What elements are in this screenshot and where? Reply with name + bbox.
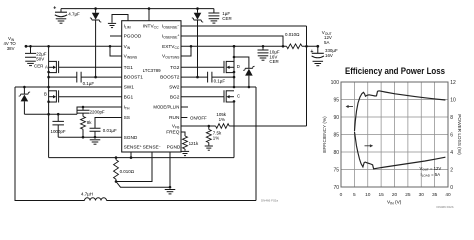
svg-text:2200pF: 2200pF — [90, 110, 105, 115]
resistor 8k (ITH) — [82, 113, 84, 116]
ground (22uF) — [25, 60, 36, 62]
wire switch A/B conductor (VIN to SW1 to bus) — [48, 46, 50, 157]
svg-text:SW1: SW1 — [124, 85, 135, 91]
wire SW1 to inductor — [15, 87, 85, 201]
svg-text:8: 8 — [450, 115, 453, 121]
node C source junction — [233, 100, 236, 103]
svg-text:0.010Ω: 0.010Ω — [120, 169, 135, 174]
svg-text:0: 0 — [450, 185, 453, 191]
wire switch C source to bus — [233, 101, 235, 157]
wire MODE/PLLIN stub — [181, 106, 188, 108]
node bus junctions — [115, 156, 118, 159]
wire VOUTSNS tap — [181, 46, 191, 56]
svg-text:80: 80 — [333, 150, 339, 156]
node RSENSE terminals — [115, 180, 118, 183]
capacitor 22uF 50V CER (input) — [30, 46, 32, 53]
svg-text:CER: CER — [34, 63, 43, 68]
wire IOSENSE- / VFB vertical — [306, 26, 308, 126]
svg-text:85: 85 — [333, 132, 339, 138]
resistor RSENSE 0.010 ohm — [114, 160, 119, 180]
svg-text:LTC3789: LTC3789 — [143, 68, 161, 73]
svg-text:+: + — [310, 49, 313, 55]
capacitor 1000pF (ITH filter) — [57, 114, 59, 121]
wire INTVCC pin — [148, 9, 150, 21]
svg-text:70: 70 — [333, 185, 339, 191]
diode DB1 (BOOST1 charge, schottky) — [95, 9, 97, 13]
svg-text:4.7µF: 4.7µF — [68, 12, 80, 17]
svg-text:40: 40 — [445, 192, 451, 198]
svg-text:1000pF: 1000pF — [51, 129, 66, 134]
wire RUN stub — [181, 117, 187, 119]
svg-text:TG1: TG1 — [124, 65, 134, 71]
svg-text:PGND: PGND — [167, 145, 181, 151]
wire ITH pin — [77, 107, 122, 114]
wire source/sense bus — [49, 157, 234, 159]
svg-text:121k: 121k — [189, 141, 199, 146]
svg-text:SENSE−: SENSE− — [143, 145, 161, 151]
svg-text:+: + — [53, 6, 56, 12]
wire VINSNS to VIN — [110, 46, 122, 56]
svg-text:PGOOD: PGOOD — [124, 34, 142, 40]
capacitor 0.1uF (BOOST2) — [181, 76, 234, 78]
svg-text:2: 2 — [450, 167, 453, 173]
svg-text:BG1: BG1 — [124, 94, 134, 100]
svg-text:FREQ: FREQ — [166, 130, 180, 136]
svg-text:0.010Ω: 0.010Ω — [285, 32, 300, 37]
wire VIN rail — [26, 45, 122, 47]
svg-text:BG2: BG2 — [170, 94, 180, 100]
svg-text:Efficiency and Power Loss: Efficiency and Power Loss — [345, 65, 445, 76]
capacitor 330uF 16V (output, polarized) — [317, 46, 319, 53]
svg-text:12: 12 — [450, 80, 456, 86]
ground (4.7uF) — [56, 18, 67, 20]
wire TG1 to gate A — [59, 66, 122, 68]
node VFB divider junction — [208, 125, 211, 128]
ground (7.5k) — [205, 145, 213, 147]
wire diode DB2 to BOOST2 — [197, 20, 199, 77]
ground (SGND bus) — [90, 139, 101, 141]
op-amp U1 LTC3789 (controller IC body) — [122, 21, 181, 152]
node INTVCC rail junctions — [94, 7, 97, 10]
ground (10uF) — [258, 55, 269, 57]
svg-text:100: 100 — [331, 80, 340, 86]
capacitor 0.1uF (BOOST1) — [49, 76, 122, 78]
diode D-C schottky (across switch D) — [248, 76, 250, 87]
resistor 0.010 ohm (output sense) — [287, 44, 303, 49]
svg-text:POWER LOSS (W): POWER LOSS (W) — [457, 114, 462, 155]
svg-text:SW2: SW2 — [169, 85, 180, 91]
capacitor 1uF CER (INTVCC) — [213, 9, 215, 13]
wire SGND ground bus — [58, 136, 121, 138]
wire PGND pin — [169, 152, 171, 187]
node PGND junction — [169, 186, 172, 189]
ground (PGND) — [165, 189, 176, 191]
wire IOSENSE+ line — [181, 36, 283, 46]
wire SS pin — [95, 118, 122, 129]
svg-text:15: 15 — [378, 192, 384, 198]
svg-text:SENSE+: SENSE+ — [124, 145, 142, 151]
capacitor 10uF 16V CER (output) — [262, 46, 264, 50]
svg-text:DN466 F02b: DN466 F02b — [437, 205, 454, 209]
node A source/cap junctions — [47, 71, 50, 74]
svg-text:RUN: RUN — [169, 115, 180, 121]
wire IOSENSE- line — [181, 25, 307, 27]
wire SENSE- pin — [116, 152, 152, 182]
wire diode DB1 to BOOST1 — [95, 20, 97, 77]
svg-text:95: 95 — [333, 97, 339, 103]
ground (330uF) — [313, 60, 324, 62]
svg-text:VIN (V): VIN (V) — [387, 199, 402, 205]
svg-text:75: 75 — [333, 167, 339, 173]
svg-text:SGND: SGND — [124, 135, 138, 141]
node VIN input terminal — [25, 45, 28, 48]
node VOUT rail junctions — [190, 45, 193, 48]
wire SENSE+ pin — [130, 152, 132, 158]
svg-text:1%: 1% — [219, 117, 225, 122]
svg-text:16V: 16V — [325, 53, 333, 58]
svg-text:TG2: TG2 — [170, 65, 180, 71]
wire PGOOD stub — [110, 35, 122, 37]
svg-text:BOOST1: BOOST1 — [124, 75, 144, 81]
wire TG2 to gate D — [181, 66, 224, 68]
svg-text:0.1µF: 0.1µF — [83, 81, 95, 86]
svg-text:25: 25 — [405, 192, 411, 198]
svg-text:SS: SS — [124, 115, 130, 121]
wire INTVCC top rail — [61, 8, 214, 10]
wire ILIM pin to ground — [112, 15, 128, 23]
wire SW1 rail — [15, 86, 122, 88]
wire switch D/C conductor (VOUT to SW2) — [233, 46, 235, 87]
node D junctions — [233, 45, 236, 48]
diode DB2 (BOOST2 charge, schottky) — [197, 9, 199, 13]
svg-text:0: 0 — [340, 192, 343, 198]
svg-text:DN466 F02a: DN466 F02a — [261, 198, 278, 202]
wire 0.01uF to ground bus — [94, 131, 96, 137]
svg-text:50V: 50V — [36, 56, 44, 61]
node ITH junction — [82, 106, 85, 109]
svg-text:10: 10 — [450, 97, 456, 103]
resistor 121k (FREQ) — [183, 136, 188, 149]
svg-text:EFFICIENCY (%): EFFICIENCY (%) — [322, 116, 327, 153]
node SW1 diode tap — [23, 86, 26, 89]
svg-text:8k: 8k — [87, 120, 92, 125]
wire SW2 to inductor — [255, 87, 257, 201]
node BOOST2 diode junction — [196, 76, 199, 79]
capacitor 2200pF (ITH) — [82, 107, 84, 110]
transistor Q-A (switch A, N-ch) — [49, 60, 57, 62]
svg-text:90: 90 — [333, 115, 339, 121]
svg-text:5A: 5A — [324, 40, 329, 45]
transistor Q-C (switch C, N-ch) — [226, 90, 234, 92]
svg-text:ON/OFF: ON/OFF — [190, 115, 207, 120]
node BOOST1 diode junction — [94, 76, 97, 79]
node VIN rail junctions — [29, 45, 32, 48]
wire BG1 to gate B — [59, 96, 122, 98]
diode D-B schottky (across switch B) — [23, 87, 25, 94]
svg-text:0.1µF: 0.1µF — [214, 79, 226, 84]
svg-text:4.7µH: 4.7µH — [81, 191, 93, 196]
svg-text:D: D — [237, 64, 240, 69]
wire SW2 rail — [181, 86, 256, 88]
inductor 4.7uH — [85, 198, 107, 201]
svg-text:A: A — [45, 64, 48, 69]
svg-text:1%: 1% — [213, 135, 219, 140]
svg-text:C: C — [237, 94, 240, 99]
transistor Q-D (switch D, N-ch) — [226, 60, 234, 62]
wire BG2 to gate C — [181, 96, 224, 98]
svg-text:B: B — [44, 92, 47, 97]
svg-text:MODE/PLLIN: MODE/PLLIN — [153, 105, 179, 110]
transistor Q-B (switch B, N-ch) — [49, 90, 57, 92]
svg-text:5: 5 — [353, 192, 356, 198]
resistor 105k 1% (feedback) — [216, 124, 230, 129]
capacitor 0.01uF (SS) — [90, 128, 101, 131]
ground (ILIM) — [108, 22, 116, 24]
svg-text:38V: 38V — [7, 46, 15, 51]
svg-text:35: 35 — [432, 192, 438, 198]
svg-text:BOOST2: BOOST2 — [160, 75, 180, 81]
resistor 7.5k 1% (feedback) — [208, 126, 210, 129]
node SW2 junctions — [248, 86, 251, 89]
wire RSENSE to power ground — [116, 182, 170, 188]
wire VFB line — [181, 125, 307, 127]
wire schottky anode to source bus — [24, 113, 77, 115]
svg-text:CER: CER — [269, 59, 278, 64]
svg-text:ILOAD = 5A: ILOAD = 5A — [421, 172, 441, 178]
ground (1uF) — [209, 18, 220, 20]
svg-text:6: 6 — [450, 132, 453, 138]
svg-text:10: 10 — [365, 192, 371, 198]
wire VOUT power rail — [181, 45, 318, 47]
capacitor 4.7uF (INTVCC bypass, polarized) — [60, 9, 62, 13]
wire FREQ pin — [181, 132, 185, 136]
svg-text:CER: CER — [222, 16, 231, 21]
svg-text:20: 20 — [392, 192, 398, 198]
svg-text:4: 4 — [450, 150, 453, 156]
svg-text:0.01µF: 0.01µF — [103, 128, 117, 133]
svg-text:30: 30 — [419, 192, 425, 198]
ground (121k) — [181, 150, 189, 152]
node ground bus junctions — [82, 136, 85, 139]
